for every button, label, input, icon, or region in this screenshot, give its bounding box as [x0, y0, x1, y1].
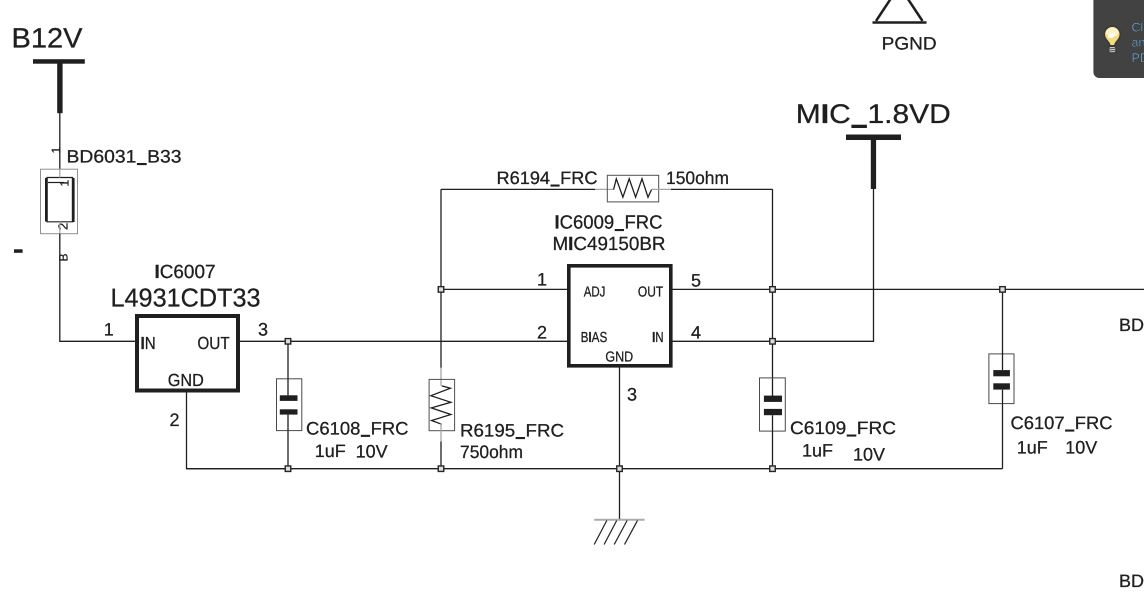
capacitor C6107 plates [993, 370, 1010, 376]
wire C6107 bottom to rail corner [1002, 390, 1004, 469]
svg-text:BD: BD [1119, 571, 1144, 591]
svg-text:5: 5 [691, 271, 701, 291]
svg-text:GND: GND [605, 350, 633, 366]
underscore bar [361, 435, 370, 437]
svg-text:2: 2 [537, 323, 547, 343]
svg-text:1: 1 [104, 320, 114, 340]
svg-text:MIC49150BR: MIC49150BR [553, 234, 666, 255]
junction at rail C6109 [770, 466, 776, 472]
wire top feedback left [441, 188, 595, 190]
wire bead to IC6007 corner [60, 234, 135, 342]
capacitor C6108 outer box [277, 379, 302, 431]
svg-text:IC6009_FRC: IC6009_FRC [555, 213, 663, 234]
junction at rail GND [617, 466, 623, 472]
svg-text:PGND: PGND [882, 34, 937, 54]
svg-text:10V: 10V [853, 444, 885, 464]
svg-text:an: an [1132, 36, 1144, 50]
svg-text:10V: 10V [1065, 438, 1097, 458]
resistor R6194 zigzag [614, 179, 652, 197]
resistor R6195 zigzag [431, 386, 451, 424]
capacitor C6107 outer box [989, 354, 1014, 404]
svg-text:2: 2 [170, 410, 180, 430]
svg-text:OUT: OUT [638, 285, 663, 301]
svg-text:L4931CDT33: L4931CDT33 [111, 283, 261, 313]
svg-text:BD6031_B33: BD6031_B33 [67, 147, 182, 167]
junction at IN row x772 [770, 339, 776, 345]
power symbol MIC_1.8VD stub [871, 140, 876, 190]
svg-text:IN: IN [141, 333, 156, 353]
ground rail [187, 468, 1003, 470]
junction at rail R6195 [438, 466, 444, 472]
wire C6108 top [287, 341, 289, 395]
gray stub R6194 right [652, 188, 671, 190]
underscore bar [851, 125, 867, 128]
svg-text:3: 3 [258, 320, 268, 340]
wire C6108 bottom [287, 415, 289, 469]
ferrite bead BD6031 outer box [41, 169, 78, 234]
svg-text:1: 1 [537, 270, 547, 290]
svg-text:C6109_FRC: C6109_FRC [790, 418, 896, 438]
resistor R6195 outer box [429, 379, 455, 430]
lightbulb icon [1104, 26, 1120, 53]
capacitor C6108 plates [280, 395, 298, 401]
svg-text:10V: 10V [356, 441, 388, 461]
underscore bar [615, 229, 624, 231]
resistor R6194 outer box [607, 175, 658, 202]
svg-text:4: 4 [691, 323, 701, 343]
PGND triangle symbol [873, 0, 927, 23]
capacitor C6109 plates [764, 396, 782, 402]
wire IN row right with corner to MIC rail [673, 189, 874, 341]
wire IC6009 GND pin 3 down [619, 368, 621, 520]
underscore bar [551, 185, 560, 187]
underscore bar [1065, 430, 1074, 432]
regulator IC6009 box [569, 266, 671, 366]
svg-text:2: 2 [56, 223, 71, 230]
partial dash label at left edge [14, 249, 23, 253]
svg-text:150ohm: 150ohm [666, 168, 729, 188]
svg-text:1: 1 [58, 180, 72, 187]
wire OUT row right to page edge [673, 288, 1144, 290]
svg-text:C6108_FRC: C6108_FRC [306, 418, 409, 438]
junction at OUT row x772 [770, 287, 776, 293]
svg-text:1uF: 1uF [315, 441, 346, 461]
capacitor C6109 outer box [760, 378, 786, 431]
junction at C6107 top [1000, 287, 1006, 293]
svg-text:B12V: B12V [12, 23, 83, 54]
svg-text:ADJ: ADJ [584, 285, 606, 301]
svg-text:R6195_FRC: R6195_FRC [460, 421, 564, 441]
svg-text:GND: GND [168, 370, 204, 390]
ground symbol hatches [594, 521, 637, 545]
junction at ADJ/R6195 node [438, 287, 444, 293]
wire left vertical (ADJ net) [440, 189, 442, 368]
svg-text:B: B [57, 253, 71, 261]
svg-text:R6194_FRC: R6194_FRC [497, 168, 598, 188]
svg-text:Cli: Cli [1132, 21, 1144, 35]
underscore bar [847, 435, 857, 437]
svg-text:PD: PD [1132, 51, 1144, 65]
underscore bar [516, 437, 525, 439]
wire top feedback right [671, 188, 773, 190]
ground symbol bar [594, 519, 644, 521]
svg-text:MIC_1.8VD: MIC_1.8VD [796, 99, 951, 129]
gray stub R6195 top [440, 368, 442, 386]
svg-text:1uF: 1uF [802, 441, 833, 461]
svg-text:IC6007: IC6007 [155, 262, 216, 283]
wire ADJ row left [441, 288, 568, 290]
power symbol MIC_1.8VD bar [846, 135, 901, 141]
bead gray pin stubs [59, 169, 61, 177]
svg-text:1uF: 1uF [1017, 438, 1048, 458]
wire IC6007 OUT to BIAS row [240, 340, 568, 342]
underscore bar [137, 163, 147, 165]
power symbol B12V bar [33, 59, 85, 64]
wire B12V to bead [59, 113, 61, 169]
gray stub R6195 bottom [440, 424, 442, 442]
svg-text:BD: BD [1119, 315, 1144, 335]
svg-text:OUT: OUT [197, 333, 230, 353]
wire C6107 top [1002, 289, 1004, 370]
tooltip popup [1093, 0, 1144, 78]
svg-text:BIAS: BIAS [581, 330, 608, 346]
wire IC6007 GND pin 2 to ground rail [187, 393, 289, 469]
junction at rail C6108 [285, 466, 291, 472]
svg-text:IN: IN [652, 330, 664, 346]
svg-text:C6107_FRC: C6107_FRC [1011, 413, 1113, 433]
wire right vertical (OUT net) [772, 189, 774, 396]
ferrite bead BD6031 body [46, 178, 73, 223]
wire C6109 bottom [772, 415, 774, 469]
wire R6195 bottom to rail [440, 442, 442, 469]
junction at C6108 top [285, 339, 291, 345]
svg-text:1: 1 [49, 147, 63, 154]
regulator IC6007 box [137, 316, 238, 391]
power symbol B12V stub [57, 64, 62, 114]
gray stub R6194 left [595, 188, 614, 190]
svg-text:750ohm: 750ohm [460, 442, 523, 462]
svg-text:3: 3 [627, 385, 637, 405]
